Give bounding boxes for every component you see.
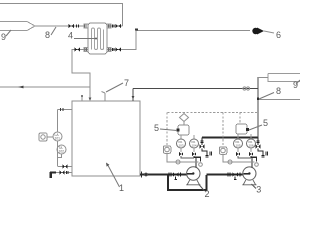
diamond logic element xyxy=(180,114,189,122)
wire TI branch xyxy=(58,154,62,158)
wire HX top-right to riser xyxy=(107,25,123,27)
label 2 xyxy=(205,189,210,199)
leader for label 2 xyxy=(199,185,205,192)
root valves pump2 instruments xyxy=(179,152,196,156)
valve dots upper tap xyxy=(61,108,64,111)
label 3 xyxy=(256,185,261,195)
pump 3 discharge riser xyxy=(257,138,259,146)
valve on HX top-right line xyxy=(116,24,122,28)
arrowhead into tank at x90 xyxy=(89,98,92,102)
leader label 5 left xyxy=(160,129,177,131)
valve on lower tap xyxy=(63,165,68,169)
wire top header line xyxy=(0,4,123,27)
heat exchanger 4 body xyxy=(88,23,107,54)
svg-text:101: 101 xyxy=(55,137,61,141)
valve stem suction 2 xyxy=(175,177,178,180)
instrument switch square pump 2 xyxy=(163,146,171,154)
pump 3 xyxy=(242,167,256,185)
flange ticks HX bottom right stub xyxy=(109,48,111,51)
ticks right of riser 3 xyxy=(266,152,268,156)
drain line from tank left xyxy=(53,172,72,174)
leader for label 8 xyxy=(51,27,56,35)
riser 2 elbow xyxy=(202,149,207,155)
label 9 xyxy=(1,32,6,42)
arrowhead on return xyxy=(132,96,135,100)
flange at HX left stub xyxy=(85,25,87,28)
valve on HX bottom-right line xyxy=(116,48,122,52)
dashed signal line main xyxy=(168,112,259,114)
flange bars riser 2 xyxy=(200,141,203,143)
flange ticks suction 2 xyxy=(169,173,171,177)
flange ticks HX bottom-left stub xyxy=(85,48,87,51)
dark link to pump2 tap xyxy=(194,156,201,162)
level tap lower xyxy=(58,166,73,168)
svg-text:9: 9 xyxy=(293,80,298,90)
riser 3 elbow xyxy=(258,149,263,155)
label 8 xyxy=(45,30,50,40)
root valves pump3 instruments xyxy=(236,152,253,156)
label 8 right xyxy=(276,86,281,96)
vent nozzle 7 xyxy=(102,92,106,102)
svg-text:8: 8 xyxy=(276,86,281,96)
tank nozzle tick xyxy=(141,172,143,178)
leader label 8 right xyxy=(259,93,274,100)
control valve 6 symbol xyxy=(252,28,264,35)
label 4 xyxy=(68,31,73,41)
wire square to circle xyxy=(47,136,53,138)
svg-text:3: 3 xyxy=(256,185,261,195)
wire recycle to left edge with arrow xyxy=(0,86,90,88)
leader for label 3 xyxy=(252,184,257,189)
leader for label 9 xyxy=(6,30,11,36)
instrument tails pump2 xyxy=(181,156,194,158)
valve on riser 3 xyxy=(256,145,261,149)
flange ticks bottom-right line xyxy=(113,48,115,51)
leader for label 4 xyxy=(74,38,95,40)
svg-text:1: 1 xyxy=(119,183,124,193)
instrument circle PI-2b xyxy=(190,139,199,148)
suction line to pump 3 xyxy=(207,174,244,176)
svg-text:104: 104 xyxy=(192,144,197,148)
vessel 9 right xyxy=(268,74,300,82)
instrument tails pump3 xyxy=(238,156,251,158)
label 1 xyxy=(119,183,124,193)
svg-text:5: 5 xyxy=(154,123,159,133)
valve stem suction 3 xyxy=(234,177,237,180)
dark link to pump3 tap xyxy=(251,156,257,162)
wire valve6 tail xyxy=(264,31,274,33)
instrument switch square pump 3 xyxy=(219,147,227,155)
svg-text:105: 105 xyxy=(236,144,241,148)
leader label 9 right xyxy=(296,80,300,84)
dashed drop to switch square right xyxy=(222,113,224,147)
level tap upper xyxy=(58,109,73,111)
valve on drain xyxy=(60,171,65,175)
flange bars riser 3 end xyxy=(261,155,264,157)
wire vessel9 to HX inlet xyxy=(35,25,84,27)
valve suction 2 xyxy=(173,173,179,177)
HX nozzle stubs xyxy=(84,24,88,28)
reducer circles on return line xyxy=(243,87,246,90)
instrument square LSH xyxy=(39,133,47,141)
pressure tap line pump3 xyxy=(223,154,255,162)
box 5 right xyxy=(236,124,247,134)
instrument circle PI-2a xyxy=(177,139,186,148)
box 5 left xyxy=(183,122,185,126)
flange ticks drain xyxy=(67,171,69,174)
flange ticks suction 3 xyxy=(228,173,230,177)
flange ticks top-right line xyxy=(113,25,115,28)
level instrument standpipe xyxy=(57,110,59,167)
pump 2 xyxy=(186,167,200,185)
nozzle stub on tank top xyxy=(81,97,83,102)
svg-text:6: 6 xyxy=(276,30,281,40)
svg-text:2: 2 xyxy=(205,189,210,199)
pump 2 discharge stub xyxy=(195,158,197,168)
wire HX bottom-left drop to tank xyxy=(72,50,90,101)
drain elbow xyxy=(51,173,56,179)
branch line right at y=99.5 xyxy=(258,99,300,101)
svg-text:102: 102 xyxy=(59,150,65,154)
dashed drop to box 5 right xyxy=(239,113,241,125)
tap circle mid pump3 xyxy=(228,160,232,164)
tap circle at pump3 xyxy=(255,163,259,167)
valve suction 3 xyxy=(233,173,239,177)
corner mark at product line elbow xyxy=(135,29,138,31)
leader for label 7 xyxy=(106,83,123,92)
heat exchanger 4 coil xyxy=(92,28,104,49)
svg-text:106: 106 xyxy=(249,144,254,148)
suction header from tank xyxy=(140,174,187,176)
bypass U line under pump 2 xyxy=(168,175,207,190)
svg-text:4: 4 xyxy=(68,31,73,41)
instrument circle TI xyxy=(57,145,66,154)
stems pump3 instruments xyxy=(238,148,251,152)
wire vessel9r inlet xyxy=(258,77,268,79)
ticks right of riser 2 xyxy=(210,152,212,156)
flange bars riser 3 xyxy=(256,141,259,143)
stems pump2 instruments xyxy=(181,148,194,152)
instrument circle LI xyxy=(53,132,62,141)
junction mark xyxy=(257,98,259,100)
wire HX bottom-right to product line xyxy=(107,31,250,50)
discharge header xyxy=(202,137,258,139)
instrument circle PI-3a xyxy=(234,139,243,148)
svg-text:9: 9 xyxy=(1,32,6,42)
main riser from pumps to vessel 9 xyxy=(257,77,259,138)
tap circle mid pump2 xyxy=(176,160,180,164)
dashed drop to switch square left xyxy=(166,113,168,146)
leader for label 1 with arrowhead xyxy=(108,165,120,188)
flange tick after valve 2 xyxy=(180,173,182,177)
flange tick after valve 3 xyxy=(239,173,241,177)
ticks box5 to instruments left xyxy=(181,135,194,139)
flange ticks left inlet xyxy=(77,25,79,28)
svg-text:103: 103 xyxy=(179,144,184,148)
pressure tap line pump2 xyxy=(167,153,199,162)
valve on HX top-left inlet xyxy=(69,24,75,28)
valve on HX bottom-left line xyxy=(75,48,81,52)
instrument circle PI-3b xyxy=(247,139,256,148)
label 7 xyxy=(124,78,129,88)
flange ticks HX right stub xyxy=(109,25,111,28)
svg-text:5: 5 xyxy=(263,118,268,128)
tank 1 body xyxy=(72,101,140,176)
return line to tank xyxy=(133,88,258,90)
tap circle at pump2 xyxy=(199,163,203,167)
flow arrow on recycle line xyxy=(18,86,24,89)
vessel 9 (left elongated vessel) xyxy=(0,22,35,31)
connector dot box5 right xyxy=(246,128,249,131)
pump 2 discharge riser xyxy=(201,138,203,146)
svg-text:7: 7 xyxy=(124,78,129,88)
pump 3 discharge stub xyxy=(251,158,253,168)
label 5 left xyxy=(154,123,159,133)
label 9 right xyxy=(293,80,298,90)
ticks box5 to instruments right xyxy=(238,134,251,139)
flange bars riser 2 end xyxy=(205,155,208,157)
nozzle circle xyxy=(145,173,148,176)
label 6 xyxy=(276,30,281,40)
leader label 5 right xyxy=(249,125,262,130)
valve on riser 2 xyxy=(200,145,205,149)
svg-text:8: 8 xyxy=(45,30,50,40)
label 5 right xyxy=(263,118,268,128)
return line drop into tank top xyxy=(132,89,134,102)
